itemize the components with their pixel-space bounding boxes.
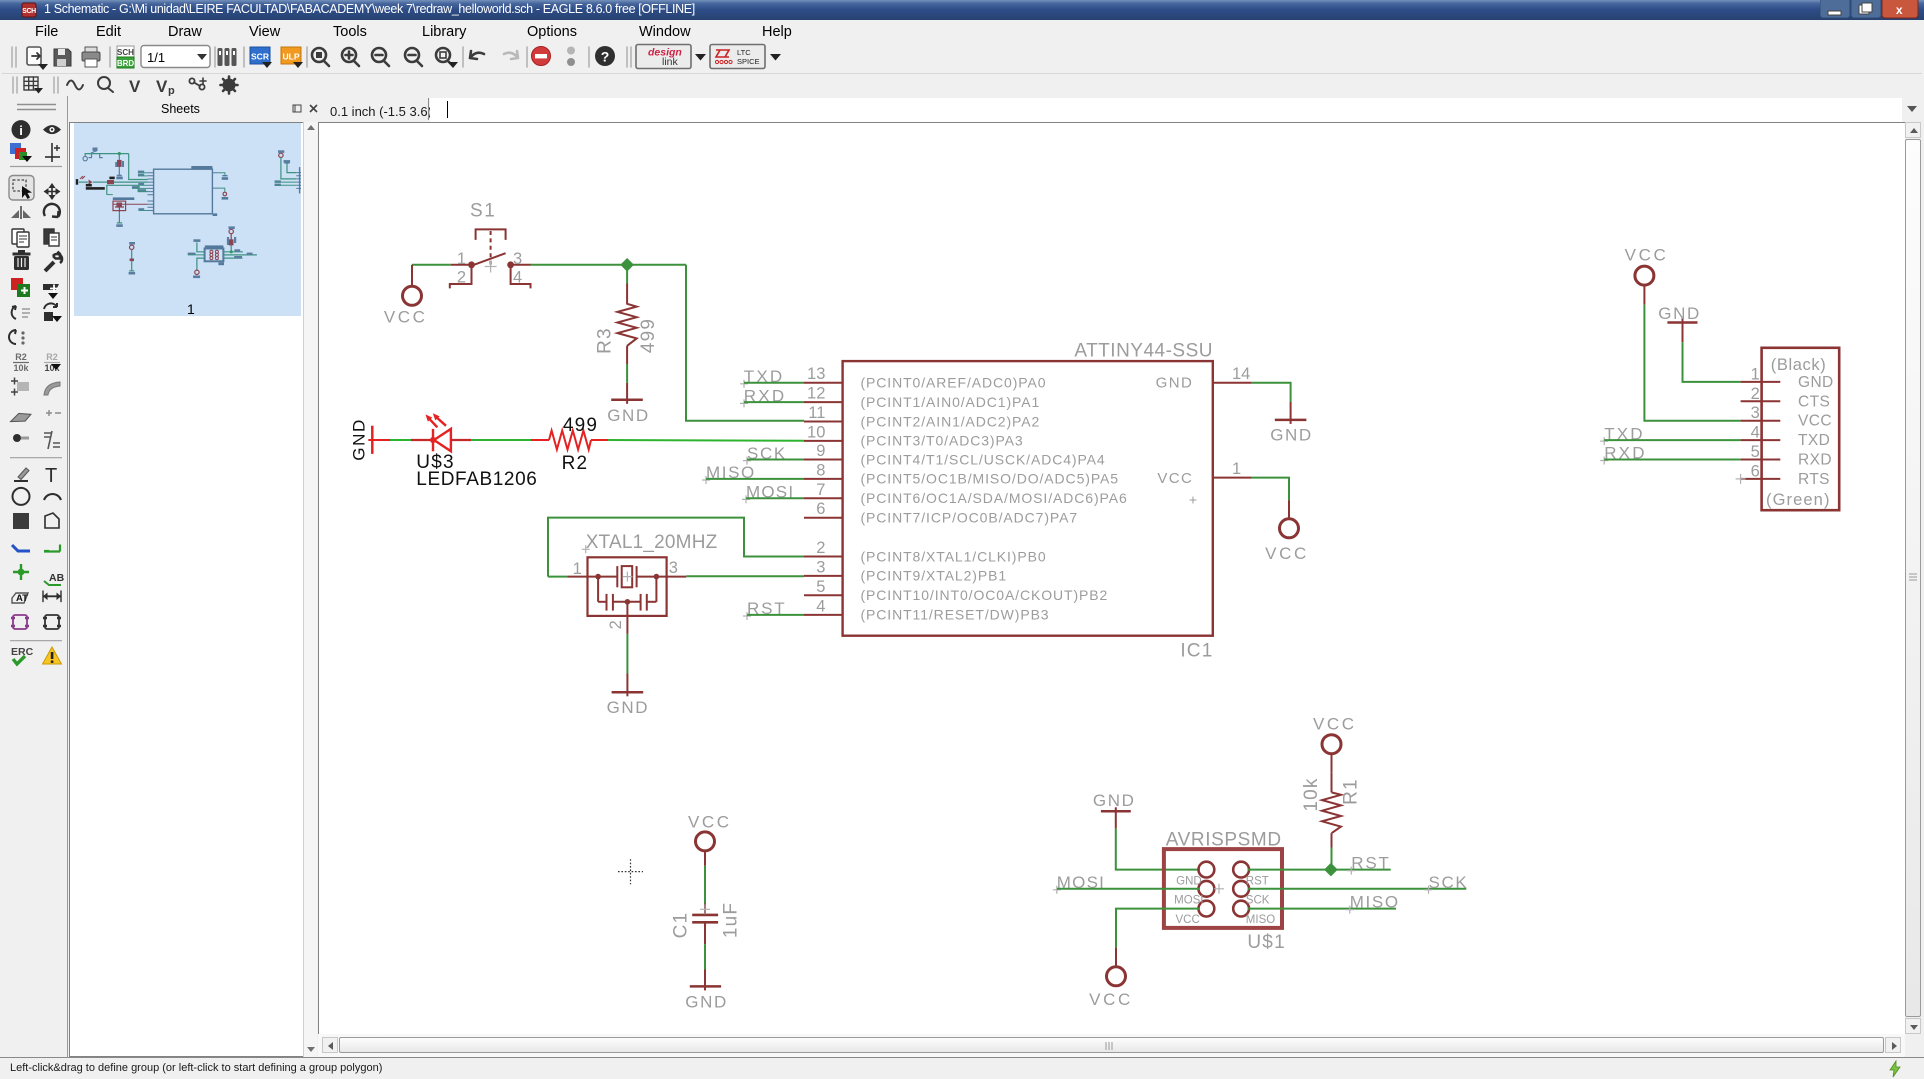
traffic dots (567, 47, 575, 55)
add part (11, 278, 30, 297)
resonator XTAL1_20MHZ (568, 557, 687, 634)
wire R3 to GND (626, 364, 628, 383)
svg-text:(Black): (Black) (1771, 356, 1827, 374)
IC1 pin numbers (807, 365, 1250, 615)
mini GND below XTAL (117, 213, 122, 223)
svg-text:VCC: VCC (1625, 245, 1669, 264)
cut (44, 229, 59, 246)
svg-text:SCH: SCH (117, 48, 134, 57)
svg-text:6: 6 (816, 500, 825, 518)
svg-text:TXD: TXD (1798, 432, 1830, 449)
wire SCK to IC pin 9 (747, 459, 804, 461)
mini AVRISP (193, 239, 200, 242)
wire VCC to AVRISP pin VCC (1116, 909, 1200, 948)
delete (13, 250, 31, 270)
svg-text:3: 3 (669, 559, 678, 577)
svg-text:S1: S1 (470, 201, 496, 222)
arc tool (44, 494, 61, 500)
sheet combo (141, 46, 210, 68)
power symbol VCC (C1) (696, 832, 715, 866)
ground GND (FTDI) (1667, 319, 1697, 343)
mini wire to pin11 (129, 154, 148, 180)
grid button (24, 77, 38, 90)
svg-text:2: 2 (607, 620, 625, 629)
svg-text:i: i (19, 123, 23, 138)
mini wire VCC-S1-junction (85, 154, 129, 157)
library columns (218, 48, 237, 66)
svg-text:+: + (1189, 492, 1198, 508)
wire R1 to RST junction (1331, 848, 1333, 870)
wire IC pin1 to VCC (1252, 478, 1289, 501)
polygon outline tool (45, 513, 59, 528)
wire TXD to FTDI pin 4 (1604, 439, 1740, 441)
SCH/BRD (117, 46, 135, 68)
mini LED row (76, 179, 78, 185)
ground GND (C1) (690, 970, 721, 991)
wire MOSI to IC pin 7 (746, 497, 804, 499)
wire GND to FTDI pin 1 (1683, 342, 1741, 382)
svg-text:(PCINT7/ICP/OC0B/ADC7)PA7: (PCINT7/ICP/OC0B/ADC7)PA7 (861, 510, 1079, 526)
magnifier Q (98, 77, 113, 92)
wrench (45, 252, 62, 272)
svg-text:VCC: VCC (1157, 470, 1193, 487)
svg-text:3: 3 (513, 250, 522, 268)
svg-text:BRD: BRD (117, 59, 135, 68)
status bar (0, 1057, 1924, 1079)
SCR (250, 47, 272, 68)
svg-text:(PCINT3/T0/ADC3)PA3: (PCINT3/T0/ADC3)PA3 (861, 433, 1024, 449)
svg-text:(PCINT9/XTAL2)PB1: (PCINT9/XTAL2)PB1 (861, 568, 1008, 584)
label tool (44, 572, 65, 585)
FTDI pin stubs (1741, 382, 1781, 479)
junction node RST/R1 (1324, 863, 1338, 877)
left tool palette (2, 96, 68, 1057)
ground GND (AVRISP) (1101, 807, 1131, 828)
name (13, 352, 29, 373)
wire RXD to IC pin 12 (744, 401, 804, 403)
dimension tool (43, 591, 61, 603)
svg-text:SCK: SCK (1246, 895, 1270, 907)
mouse crosshair cursor (618, 859, 643, 884)
wire R2 to IC pin 10 (608, 439, 804, 442)
wire GND to AVRISP pin GND (1116, 829, 1200, 870)
power symbol VCC (top left) (403, 265, 422, 306)
wire IC pin14 to GND (1252, 383, 1291, 402)
toolbar row 1 (2, 42, 1922, 74)
miter (44, 382, 60, 395)
FTDI pin numbers (1751, 365, 1760, 480)
power symbol VCC (IC pin1) (1280, 500, 1299, 538)
junction node (620, 258, 634, 272)
move (44, 183, 61, 200)
svg-text:AT: AT (16, 593, 28, 604)
IC1 pin names (861, 375, 1199, 623)
invoke (46, 410, 61, 416)
pin array (13, 434, 29, 442)
svg-text:VCC: VCC (1798, 413, 1832, 430)
svg-text:5: 5 (1751, 443, 1760, 461)
mini R3 (118, 154, 120, 176)
wire VCC to FTDI pin 3 (1644, 305, 1740, 421)
svg-text:p: p (168, 85, 175, 96)
mini IC right power (219, 173, 225, 192)
svg-text:(Green): (Green) (1766, 491, 1831, 509)
wire RST to IC pin 4 (747, 614, 804, 616)
svg-text:14: 14 (1232, 365, 1250, 383)
svg-text:1uF: 1uF (720, 902, 741, 938)
svg-text:ERC: ERC (11, 646, 34, 658)
svg-text:LTC: LTC (737, 48, 751, 57)
svg-text:VCC: VCC (1265, 544, 1309, 563)
svg-text:AVRISPSMD: AVRISPSMD (1166, 829, 1282, 850)
mini net labels TXD/RXD (138, 171, 144, 173)
IC1 ATTINY44-SSU body (843, 361, 1213, 636)
svg-text:(PCINT4/T1/SCL/USCK/ADC4)PA4: (PCINT4/T1/SCL/USCK/ADC4)PA4 (861, 451, 1106, 467)
svg-text:9: 9 (816, 442, 825, 460)
svg-text:U$1: U$1 (1247, 932, 1285, 953)
paste (44, 303, 62, 322)
link nodes (189, 78, 206, 90)
replace (12, 306, 30, 319)
open (27, 47, 48, 70)
undo / redo (470, 51, 484, 59)
svg-text:(PCINT1/AIN0/ADC1)PA1: (PCINT1/AIN0/ADC1)PA1 (861, 394, 1041, 410)
junction tool (13, 564, 29, 580)
svg-text:GND: GND (1156, 375, 1194, 392)
sine (67, 81, 83, 90)
circle tool (13, 488, 30, 505)
svg-text:GND: GND (1658, 304, 1701, 323)
svg-text:(PCINT6/OC1A/SDA/MOSI/ADC6)PA6: (PCINT6/OC1A/SDA/MOSI/ADC6)PA6 (861, 490, 1128, 506)
svg-text:2: 2 (457, 269, 466, 287)
IC1 left pin stubs (804, 383, 1252, 615)
gear (221, 77, 238, 94)
power symbol VCC (FTDI) (1635, 266, 1654, 305)
rect tool (13, 513, 29, 529)
svg-text:3: 3 (1751, 404, 1760, 422)
svg-text:SCR: SCR (251, 52, 269, 62)
svg-text:VCC: VCC (384, 308, 428, 327)
resistor R2 (highlighted) (531, 431, 608, 450)
svg-text:(PCINT0/AREF/ADC0)PA0: (PCINT0/AREF/ADC0)PA0 (861, 375, 1047, 391)
svg-text:LEDFAB1206: LEDFAB1206 (416, 469, 537, 490)
horizontal scroll band (318, 1034, 1905, 1057)
net tool (44, 545, 60, 552)
ground GND (LED, highlighted, rotated) (368, 426, 390, 454)
svg-text:RTS: RTS (1798, 471, 1830, 488)
svg-text:RST: RST (1246, 876, 1269, 888)
svg-text:12: 12 (807, 385, 825, 403)
mirror (11, 206, 31, 219)
svg-text:VCC: VCC (1313, 714, 1357, 733)
ULP (281, 47, 303, 68)
svg-text:SCK: SCK (1429, 873, 1469, 892)
wires XTAL loop to IC pins 2,3 (548, 576, 568, 578)
svg-text:IC1: IC1 (1180, 641, 1213, 662)
wire AVRISP SCK row (1248, 888, 1466, 890)
svg-text:VCC: VCC (1176, 914, 1200, 926)
svg-text:R1: R1 (1341, 778, 1362, 805)
svg-text:AB: AB (49, 572, 65, 584)
polygon tool (11, 410, 31, 426)
svg-text:2: 2 (1751, 385, 1760, 403)
rotate (44, 204, 60, 217)
errors (43, 647, 62, 664)
svg-text:MOSI: MOSI (1174, 895, 1203, 907)
print (82, 47, 100, 67)
svg-text:R2: R2 (15, 352, 27, 362)
sheets panel (69, 96, 317, 1057)
svg-text:XTAL1_20MHZ: XTAL1_20MHZ (586, 532, 718, 553)
svg-text:1: 1 (457, 250, 466, 268)
wire AVRISP MISO row (1248, 908, 1396, 910)
gateswap (9, 330, 25, 345)
svg-text:C1: C1 (670, 912, 691, 939)
power symbol VCC (R1) (1322, 735, 1341, 773)
svg-text:4: 4 (816, 597, 825, 615)
smash (11, 378, 29, 396)
wire S1 to junction to IC pin 11 (531, 264, 687, 266)
ground GND (IC pin14) (1275, 402, 1307, 424)
svg-text:MISO: MISO (1246, 914, 1275, 926)
zoom buttons (312, 48, 453, 66)
svg-text:ATTINY44-SSU: ATTINY44-SSU (1074, 341, 1213, 362)
line tool (14, 468, 29, 481)
svg-text:GND: GND (1270, 426, 1313, 445)
info (12, 120, 31, 139)
title bar (0, 0, 1924, 20)
mid row: sheets header + coords + command line (2, 96, 1922, 122)
svg-text:499: 499 (638, 318, 659, 353)
eye (43, 125, 61, 134)
resistor R3 (617, 284, 636, 365)
frame tool (11, 615, 29, 629)
svg-text:7: 7 (816, 481, 825, 499)
svg-text:GND: GND (349, 418, 368, 461)
copy (12, 229, 29, 247)
svg-text:T: T (45, 465, 57, 487)
capacitor C1 (692, 903, 718, 944)
save (54, 49, 71, 66)
wire junction down to R3 (626, 265, 628, 284)
toolbar row 2 (2, 74, 1922, 96)
svg-text:VCC: VCC (1089, 990, 1133, 1009)
FTDI pin names (1798, 374, 1834, 488)
svg-text:5: 5 (816, 578, 825, 596)
mini IC1 (154, 169, 213, 214)
svg-text:V: V (129, 77, 141, 96)
value (44, 352, 61, 373)
help (595, 46, 615, 66)
mini R1 (229, 229, 233, 233)
svg-text:(PCINT5/OC1B/MISO/DO/ADC5)PA5: (PCINT5/OC1B/MISO/DO/ADC5)PA5 (861, 471, 1119, 487)
bus tool (12, 545, 30, 551)
svg-text:VCC: VCC (688, 812, 732, 831)
svg-text:GND: GND (685, 992, 728, 1011)
switch S1 (450, 229, 531, 288)
svg-text:499: 499 (563, 415, 598, 436)
header AVRISPSMD U$1 (1164, 849, 1282, 928)
wire XTAL pin2 to GND (626, 634, 628, 674)
main canvas (318, 122, 1905, 1034)
svg-text:SCH: SCH (22, 8, 36, 15)
svg-text:GND: GND (1093, 791, 1136, 810)
svg-text:GND: GND (607, 698, 650, 717)
wire VCC to S1 pin 1 (412, 264, 451, 266)
wire RXD to FTDI pin 5 (1604, 459, 1740, 461)
svg-text:GND: GND (607, 406, 650, 425)
svg-text:10: 10 (807, 423, 825, 441)
svg-text:(PCINT10/INT0/OC0A/CKOUT)PB2: (PCINT10/INT0/OC0A/CKOUT)PB2 (861, 587, 1109, 603)
svg-text:1: 1 (1751, 365, 1760, 383)
svg-text:?: ? (601, 49, 610, 65)
stop (532, 47, 551, 66)
mini C1 (130, 245, 134, 249)
ERC (11, 646, 34, 664)
power symbol VCC (AVRISP) (1107, 947, 1126, 985)
svg-text:(PCINT11/RESET/DW)PB3: (PCINT11/RESET/DW)PB3 (861, 607, 1050, 623)
mini S1/VCC (83, 156, 87, 160)
mini net labels SCK/MISO/MOSI/RST (138, 183, 144, 185)
mini FTDI (279, 153, 283, 157)
connector FTDI body (1762, 348, 1840, 510)
resistor R1 (1322, 773, 1341, 848)
wire MOSI to AVRISP (1057, 888, 1200, 890)
svg-text:GND: GND (1798, 374, 1834, 391)
svg-text:RXD: RXD (1798, 452, 1832, 469)
svg-text:R2: R2 (562, 453, 589, 474)
svg-text:1/1: 1/1 (147, 50, 165, 65)
pinswap (43, 284, 59, 299)
wire GND to LED (390, 439, 411, 441)
svg-text:6: 6 (1751, 462, 1760, 480)
svg-text:link: link (662, 56, 679, 68)
design link button (636, 45, 691, 69)
wire LED to R2 (471, 439, 531, 441)
svg-text:x: x (1896, 3, 1903, 17)
wire MISO to IC pin 8 (706, 478, 804, 480)
group select (active) (9, 176, 34, 201)
svg-text:1: 1 (573, 560, 582, 578)
svg-text:(PCINT8/XTAL1/CLKI)PB0: (PCINT8/XTAL1/CLKI)PB0 (861, 548, 1047, 564)
wire VCC to C1 (704, 866, 706, 904)
LTC SPICE button (710, 45, 765, 69)
wire AVRISP RST row (1248, 869, 1391, 871)
mini RST/SCK/MISO wires (224, 251, 243, 253)
svg-text:CTS: CTS (1798, 393, 1830, 410)
mini XTAL (113, 197, 135, 200)
window controls (1820, 0, 1920, 20)
app icon (21, 2, 37, 18)
vertical scrollbar (1905, 122, 1922, 1034)
svg-text:GND: GND (1176, 876, 1202, 888)
svg-text:8: 8 (816, 461, 825, 479)
svg-text:13: 13 (807, 365, 825, 383)
svg-text:10k: 10k (13, 363, 29, 373)
ground GND (below R3) (611, 383, 643, 404)
svg-text:11: 11 (808, 404, 825, 422)
svg-text:V: V (156, 77, 168, 96)
attribute tool (12, 593, 28, 604)
ground GND (below XTAL) (612, 674, 644, 697)
LED U$3 (highlighted) (411, 417, 471, 451)
svg-text:2: 2 (816, 539, 825, 557)
menu bar (2, 20, 1922, 42)
wire TXD to IC pin 13 (744, 382, 804, 384)
svg-text:4: 4 (1751, 424, 1760, 442)
layers (10, 143, 32, 162)
FTDI unconnected pin cross RTS (1736, 474, 1746, 484)
svg-text:10k: 10k (1301, 777, 1322, 811)
svg-text:1: 1 (1232, 460, 1241, 478)
svg-text:SPICE: SPICE (737, 57, 760, 66)
svg-text:R3: R3 (595, 327, 616, 354)
wire C1 to GND (704, 944, 706, 969)
svg-text:3: 3 (816, 558, 825, 576)
svg-text:MISO: MISO (1350, 893, 1400, 912)
svg-text:R2: R2 (46, 352, 58, 362)
split (44, 431, 60, 449)
display origin (45, 143, 60, 162)
svg-text:4: 4 (513, 269, 522, 287)
svg-text:ULP: ULP (283, 52, 300, 62)
svg-text:RST: RST (1351, 854, 1390, 873)
svg-text:(PCINT2/AIN1/ADC2)PA2: (PCINT2/AIN1/ADC2)PA2 (861, 413, 1041, 429)
